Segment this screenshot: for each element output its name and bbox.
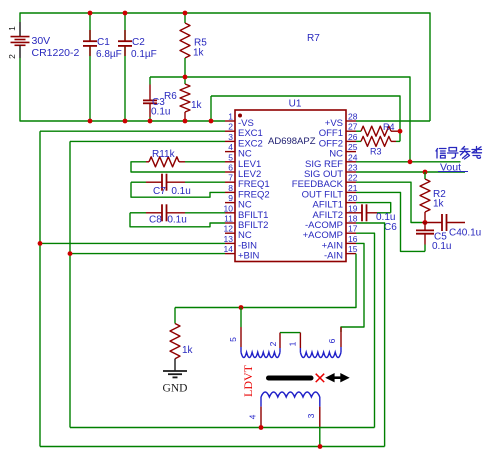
svg-text:18: 18 xyxy=(348,214,358,224)
wire secondary series link xyxy=(280,332,300,334)
capacitor C5 xyxy=(416,223,434,252)
pin 6 LEV2 xyxy=(225,163,261,181)
wire +V top bus xyxy=(20,13,430,121)
junction C1 top xyxy=(88,11,93,16)
capacitor C6 xyxy=(356,204,391,221)
svg-text:1: 1 xyxy=(288,341,298,346)
junction +BIN node xyxy=(68,251,73,256)
wire -AIN to secondary pin5 xyxy=(175,254,356,308)
svg-text:2: 2 xyxy=(268,341,278,346)
svg-text:22: 22 xyxy=(348,173,358,183)
battery label 30V CR1220-2 xyxy=(32,35,80,59)
svg-text:R3: R3 xyxy=(370,147,382,157)
wire EXC2 bottom bus xyxy=(70,427,375,429)
svg-text:2: 2 xyxy=(7,54,17,59)
pin 17 +ACOMP xyxy=(303,224,358,242)
wire EXC2 to pin3 xyxy=(70,140,225,142)
junction R6 bottom xyxy=(183,119,188,124)
svg-text:4: 4 xyxy=(228,142,233,152)
core motion double arrow xyxy=(325,373,350,382)
svg-text:6: 6 xyxy=(228,163,233,173)
wire OUT FILT to C5 bottom xyxy=(356,192,425,251)
label C3 0.1u xyxy=(151,97,170,118)
pin 19 AFILT2 xyxy=(313,203,358,221)
label net 信号参考 xyxy=(436,147,482,160)
svg-text:6: 6 xyxy=(327,338,337,343)
pin 21 OUT FILT xyxy=(302,183,358,201)
core position x mark xyxy=(316,374,325,382)
svg-text:14: 14 xyxy=(224,244,234,254)
pin 12 NC xyxy=(224,224,252,242)
svg-text:17: 17 xyxy=(348,224,358,234)
svg-text:27: 27 xyxy=(348,122,358,132)
pin 15 -AIN xyxy=(324,244,358,262)
svg-text:5: 5 xyxy=(228,337,238,342)
pin 10 BFILT1 xyxy=(224,203,269,221)
svg-text:0.1u: 0.1u xyxy=(432,241,451,252)
capacitor C1 xyxy=(83,13,97,121)
svg-text:20: 20 xyxy=(348,193,358,203)
svg-text:R4: R4 xyxy=(383,122,395,132)
svg-text:24: 24 xyxy=(348,152,358,162)
svg-text:C40.1u: C40.1u xyxy=(449,228,481,239)
svg-text:26: 26 xyxy=(348,132,358,142)
svg-text:R6: R6 xyxy=(164,91,177,102)
svg-text:13: 13 xyxy=(224,234,234,244)
ground xyxy=(163,359,187,378)
svg-text:0.1u: 0.1u xyxy=(151,107,170,118)
svg-text:C7 0.1u: C7 0.1u xyxy=(153,186,191,197)
core bar xyxy=(269,376,312,381)
junction primary-3 node xyxy=(318,444,323,449)
pin 4 NC xyxy=(225,142,252,160)
svg-text:15: 15 xyxy=(348,244,358,254)
junction secondary-5 node xyxy=(239,305,244,310)
pin 5 LEV1 xyxy=(225,152,261,170)
svg-text:6.8µF: 6.8µF xyxy=(96,49,122,60)
pin 2 EXC1 xyxy=(225,122,263,140)
svg-text:7: 7 xyxy=(228,173,233,183)
svg-text:2: 2 xyxy=(228,122,233,132)
battery BT1 30V CR1220-2 xyxy=(7,22,30,59)
junction SIG REF xyxy=(408,159,413,164)
svg-text:16: 16 xyxy=(348,234,358,244)
label C2 0.1uF xyxy=(131,37,157,60)
svg-text:AD698APZ: AD698APZ xyxy=(268,136,316,147)
svg-text:C6: C6 xyxy=(384,222,397,233)
svg-text:12: 12 xyxy=(224,224,234,234)
svg-text:+BIN: +BIN xyxy=(238,251,260,262)
pin 7 FREQ1 xyxy=(225,173,270,191)
label net Vout xyxy=(438,162,468,174)
wire EXC1 bottom bus xyxy=(40,446,385,448)
junction R5 top xyxy=(183,11,188,16)
svg-text:CR1220-2: CR1220-2 xyxy=(32,47,80,59)
label R5 1k xyxy=(193,38,207,59)
svg-text:R7: R7 xyxy=(307,33,320,44)
wire SIG REF out xyxy=(356,161,461,163)
wire EXC1 to pin2 xyxy=(40,130,225,132)
wire +ACOMP column xyxy=(356,233,375,427)
pin 14 +BIN xyxy=(224,244,260,262)
capacitor C8 xyxy=(130,204,225,227)
wire -BIN to EXC1 column xyxy=(40,242,225,244)
junction C2 bottom xyxy=(123,119,128,124)
svg-text:10: 10 xyxy=(224,203,234,213)
capacitor C2 xyxy=(118,13,132,121)
svg-text:8: 8 xyxy=(228,183,233,193)
junction R2-C5-C4 node xyxy=(423,220,428,225)
svg-text:3: 3 xyxy=(228,132,233,142)
wire LEV bus y77 xyxy=(150,77,410,162)
pin 27 OFF1 xyxy=(319,122,358,140)
wire +VS to top bus xyxy=(356,120,430,122)
pin 18 -ACOMP xyxy=(305,214,358,232)
pin 13 -BIN xyxy=(224,234,258,252)
pin 23 SIG OUT xyxy=(304,163,358,181)
resistor R1 xyxy=(131,157,225,172)
svg-text:9: 9 xyxy=(228,193,233,203)
svg-text:C8 0.1u: C8 0.1u xyxy=(149,215,187,226)
svg-text:1k: 1k xyxy=(182,345,194,356)
transformer T1 primary pins 4-3 xyxy=(248,392,320,447)
svg-text:1: 1 xyxy=(7,26,17,31)
transformer T1 secondary A pins 5-2 xyxy=(228,308,280,358)
transformer T1 secondary B pins 1-6 xyxy=(288,327,341,358)
resistor R6 xyxy=(180,77,190,121)
svg-text:1k: 1k xyxy=(191,100,203,111)
resistor R2 xyxy=(420,172,430,223)
wire SIG OUT / Vout xyxy=(356,171,465,173)
wire x211 to -VS rail xyxy=(210,96,212,121)
wire +AIN to secondary pin6 xyxy=(341,243,364,332)
pin 26 OFF2 xyxy=(319,132,358,150)
resistor R5 xyxy=(180,13,190,77)
svg-text:0.1µF: 0.1µF xyxy=(131,49,157,60)
svg-text:25: 25 xyxy=(348,142,358,152)
svg-text:1: 1 xyxy=(228,112,233,122)
junction C2 top xyxy=(123,11,128,16)
op-amp U1 AD698APZ body xyxy=(235,110,346,262)
svg-text:C2: C2 xyxy=(132,37,145,48)
svg-text:1k: 1k xyxy=(433,199,445,210)
pin 20 AFILT1 xyxy=(313,193,358,211)
junction -BIN node xyxy=(38,241,43,246)
svg-text:19: 19 xyxy=(348,203,358,213)
label C1 6.8uF xyxy=(96,37,122,60)
wire battery negative to -VS rail xyxy=(20,58,225,121)
label R2 1k xyxy=(433,189,446,210)
resistor R 1k to GND xyxy=(170,308,180,359)
wire EXC1 column x40 xyxy=(39,131,41,446)
svg-text:U1: U1 xyxy=(289,99,302,110)
junction C3 bottom xyxy=(148,119,153,124)
svg-text:5: 5 xyxy=(228,152,233,162)
svg-text:-AIN: -AIN xyxy=(324,251,343,262)
pin 3 EXC2 xyxy=(225,132,263,150)
label C5 0.1u xyxy=(432,232,451,253)
pin 16 +AIN xyxy=(322,234,358,252)
svg-text:C1: C1 xyxy=(97,37,110,48)
pin 28 +VS xyxy=(325,112,358,130)
wire FEEDBACK to R2 bottom xyxy=(356,182,422,222)
junction primary-4 node xyxy=(259,425,264,430)
svg-text:4: 4 xyxy=(248,414,258,419)
capacitor C4 xyxy=(422,214,465,231)
junction R5-R6 node xyxy=(183,75,188,80)
junction SIG OUT xyxy=(423,170,428,175)
pin 24 SIG REF xyxy=(305,152,358,170)
pin 1 -VS xyxy=(225,112,254,130)
svg-text:3: 3 xyxy=(306,413,316,418)
wire EXC2 column x70 xyxy=(69,141,71,427)
svg-text:1k: 1k xyxy=(193,48,205,59)
capacitor C3 xyxy=(143,77,157,121)
resistor R3 xyxy=(356,136,400,146)
pin 25 NC xyxy=(329,142,357,160)
pin 9 NC xyxy=(225,193,252,211)
svg-text:11: 11 xyxy=(224,214,233,224)
capacitor C7 xyxy=(131,174,225,198)
wire AFILT1 to C6 xyxy=(356,203,391,213)
svg-text:R11k: R11k xyxy=(152,149,176,160)
svg-text:30V: 30V xyxy=(32,35,51,47)
svg-text:21: 21 xyxy=(348,183,358,193)
pin 22 FEEDBACK xyxy=(292,173,358,191)
wire -VS feed y96 xyxy=(211,96,400,141)
junction -VS feed xyxy=(209,119,214,124)
wire -ACOMP column xyxy=(356,223,385,447)
wire +BIN to EXC2 column xyxy=(70,253,225,255)
pin 11 BFILT2 xyxy=(224,214,268,232)
svg-text:GND: GND xyxy=(163,383,188,395)
junction C1 bottom xyxy=(88,119,93,124)
svg-text:28: 28 xyxy=(348,112,358,122)
svg-text:LDVT: LDVT xyxy=(241,364,255,397)
pin 8 FREQ2 xyxy=(225,183,270,201)
svg-text:23: 23 xyxy=(348,163,358,173)
junction R4-R3 node xyxy=(398,129,403,134)
resistor R4 xyxy=(356,126,400,136)
